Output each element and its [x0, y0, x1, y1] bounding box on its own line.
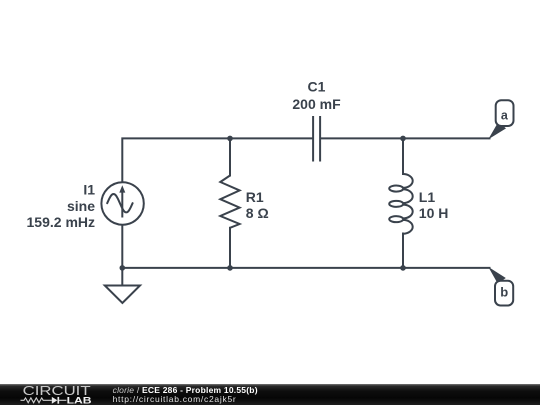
svg-text:159.2 mHz: 159.2 mHz	[27, 214, 95, 230]
capacitor C1 left plate	[312, 116, 314, 162]
capacitor C1 right plate	[319, 116, 321, 162]
svg-text:L1: L1	[419, 189, 436, 205]
terminal b tail	[488, 267, 506, 284]
junction node top L1	[400, 136, 406, 142]
terminal a tail	[488, 122, 506, 140]
current source I1 circle	[101, 182, 143, 224]
current source I1 arrow shaft	[121, 192, 123, 218]
svg-text:8 Ω: 8 Ω	[246, 205, 269, 221]
resistor R1 zigzag	[220, 176, 239, 228]
svg-text:C1: C1	[308, 79, 326, 95]
junction node bottom ground	[120, 265, 126, 271]
footer bar	[0, 384, 540, 405]
svg-text:LAB: LAB	[67, 395, 92, 405]
ground stub	[121, 268, 123, 286]
wire top-right horizontal (C1 right plate to terminal a)	[321, 137, 489, 139]
logo resistor zigzag	[21, 398, 52, 403]
svg-text:b: b	[500, 284, 508, 299]
terminal a box	[496, 100, 514, 126]
junction node top R1	[227, 136, 233, 142]
CircuitLab logo	[0, 384, 100, 405]
wire L1 bottom stub	[402, 234, 404, 268]
current source I1 arrowhead	[119, 185, 125, 192]
wire R1 top stub	[229, 138, 231, 175]
svg-text:200 mF: 200 mF	[292, 96, 341, 112]
ground triangle	[105, 286, 140, 304]
wire L1 top stub	[402, 138, 404, 174]
wire bottom horizontal	[122, 267, 489, 269]
inductor L1 coil	[389, 174, 412, 234]
junction node bottom L1	[400, 265, 406, 271]
svg-text:sine: sine	[67, 198, 95, 214]
svg-text:a: a	[501, 109, 509, 123]
current source I1 sine glyph	[107, 194, 132, 212]
junction node bottom R1	[227, 265, 233, 271]
svg-text:10 H: 10 H	[419, 205, 449, 221]
footer text	[113, 386, 258, 404]
terminal b box	[495, 281, 513, 306]
wire source bottom stub	[121, 225, 123, 268]
svg-text:I1: I1	[83, 182, 95, 198]
wire top-left horizontal (source top to C1 left plate)	[122, 138, 312, 183]
svg-text:R1: R1	[246, 189, 264, 205]
logo diode	[52, 397, 58, 404]
wire R1 bottom stub	[229, 228, 231, 268]
